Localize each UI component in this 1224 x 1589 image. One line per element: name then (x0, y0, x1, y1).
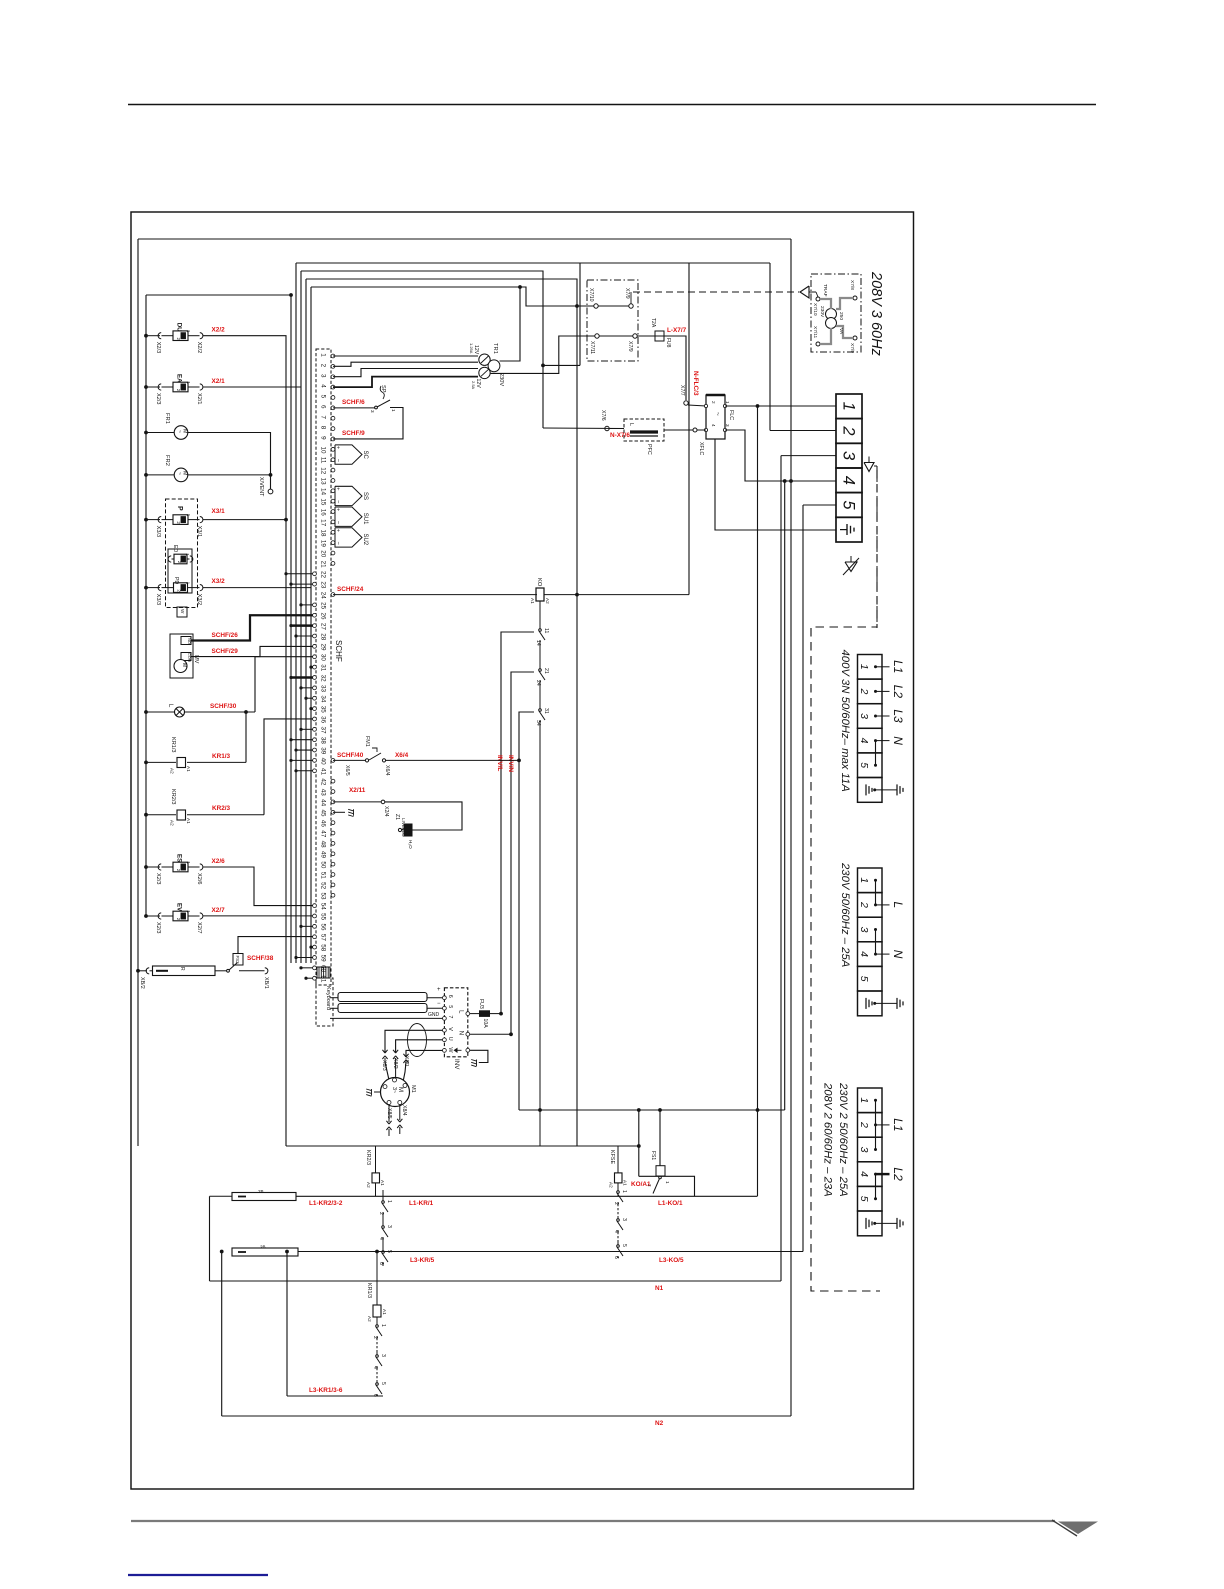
wire SCHF/56 stub (301, 925, 313, 927)
wire SCHF/40 stub (291, 759, 313, 761)
svg-text:SCHF/6: SCHF/6 (342, 399, 365, 406)
float switch FM1 on SCHF/40 (333, 759, 365, 761)
contactor KO contact 5/6 (617, 1232, 619, 1242)
terminal X7/10 (594, 304, 598, 308)
wire SCHF/32 stub (291, 676, 313, 678)
svg-text:X6/4: X6/4 (395, 752, 409, 759)
terminal 4 riser (784, 481, 786, 1110)
svg-text:A1: A1 (530, 598, 535, 604)
bus line 291 (290, 295, 292, 963)
dashed option box (811, 470, 880, 1291)
ribbon cable bar - (330, 1007, 338, 1009)
svg-text:1: 1 (621, 1190, 627, 1193)
svg-text:8: 8 (320, 426, 327, 430)
svg-text:X7/10: X7/10 (812, 303, 818, 316)
wire FR1 to X/VENT (188, 433, 271, 490)
svg-text:A1: A1 (186, 766, 191, 772)
svg-text:X2/6: X2/6 (196, 873, 202, 885)
wire SP loop to SCHF/9 (333, 408, 403, 439)
tap L2 (876, 690, 890, 692)
relay coil KR2/3 (144, 813, 148, 817)
svg-text:1: 1 (386, 1200, 392, 1203)
wire N1 riser left (209, 1196, 211, 1281)
svg-text:X6/5: X6/5 (344, 765, 350, 776)
wire SCHF/23 stub (291, 583, 313, 585)
tap L (876, 904, 890, 906)
svg-text:PFC: PFC (646, 444, 652, 455)
svg-text:58: 58 (320, 944, 327, 952)
svg-text:208V 3 60Hz: 208V 3 60Hz (868, 271, 884, 357)
wire INV N out (470, 1033, 511, 1035)
svg-text:XB/2: XB/2 (139, 977, 145, 989)
svg-text:FM1: FM1 (364, 736, 370, 747)
bus line 311 (310, 287, 312, 963)
fuse FU8 T2A on wire L-X7/7 (637, 335, 655, 337)
svg-text:X/VENT: X/VENT (258, 477, 264, 497)
svg-text:−: − (335, 542, 341, 545)
ground on SCHF/45 (333, 811, 345, 813)
wire Z1 loop (385, 802, 462, 830)
svg-text:XB/1: XB/1 (263, 977, 269, 989)
jumper (875, 1174, 877, 1199)
svg-text:1: 1 (380, 1324, 386, 1327)
svg-text:KR2/3: KR2/3 (212, 805, 231, 812)
svg-text:+: + (335, 487, 341, 490)
svg-text:X3/3: X3/3 (155, 594, 161, 606)
tap N (876, 740, 890, 742)
svg-text:ES: ES (176, 854, 183, 862)
svg-text:2B: 2B (260, 1245, 266, 1250)
svg-text:51: 51 (320, 872, 327, 880)
svg-text:1: 1 (840, 402, 858, 411)
terminal X7/11 (595, 334, 599, 338)
tap N (876, 953, 890, 955)
relay coil KR2/3 bottom (375, 1146, 377, 1173)
svg-text:21: 21 (320, 561, 327, 569)
INV pin W (443, 1049, 447, 1053)
relay coil KR1/3 (144, 761, 148, 765)
wire SCHF/26 bold (191, 615, 313, 640)
contactor KO contact 3/4 (617, 1204, 619, 1216)
svg-text:SCHF/29: SCHF/29 (212, 648, 239, 655)
svg-text:31: 31 (543, 708, 549, 714)
wire FS2 to term 57 (238, 937, 313, 954)
svg-text:2: 2 (320, 364, 327, 368)
wire to FS1 pin 1 (639, 1176, 695, 1196)
svg-text:X2/2: X2/2 (212, 327, 226, 334)
wire X7 pair links (598, 305, 629, 307)
svg-text:Z1: Z1 (394, 814, 400, 820)
svg-text:39: 39 (320, 747, 327, 755)
svg-text:KR1/3: KR1/3 (212, 753, 231, 760)
wire FLC pin4 ground to PE terminal (715, 439, 836, 530)
svg-text:10: 10 (320, 447, 327, 455)
svg-text:L3: L3 (891, 709, 905, 723)
svg-text:X2/3: X2/3 (155, 922, 161, 934)
terminal TRAF X7/11 (816, 342, 820, 346)
svg-text:23: 23 (320, 581, 327, 589)
svg-text:M: M (181, 663, 187, 667)
svg-text:SCHF/40: SCHF/40 (337, 752, 364, 759)
svg-text:48: 48 (320, 841, 327, 849)
svg-text:M1: M1 (410, 1085, 416, 1093)
bus line 301 (300, 271, 302, 963)
M1 bottom wires X8/4 X8/5 (388, 1105, 390, 1123)
gray corner logo triangle (1058, 1522, 1098, 1535)
wire KO34 riser link 1110 (519, 1109, 785, 1111)
svg-text:P: P (176, 506, 183, 511)
wire N2 riser left (221, 1252, 223, 1417)
wire X3/2 (144, 586, 148, 590)
svg-text:X3/2: X3/2 (212, 578, 226, 585)
svg-text:X6/4: X6/4 (384, 765, 390, 776)
svg-text:45: 45 (320, 809, 327, 817)
inverter INV box (444, 988, 467, 1057)
svg-text:1: 1 (858, 1097, 870, 1103)
thermal fuse FS2 SCHF/38 (215, 970, 227, 972)
svg-text:INV: INV (453, 1059, 460, 1070)
bus rect B top edge (296, 262, 770, 264)
svg-text:COM: COM (187, 653, 191, 662)
wire SCHF/27 stub (291, 624, 313, 626)
connector block X7 dashed box (587, 280, 638, 361)
svg-text:11: 11 (543, 628, 549, 633)
svg-text:FR1: FR1 (164, 413, 170, 424)
svg-text:−: − (335, 459, 341, 462)
svg-text:26: 26 (320, 612, 327, 620)
dashed PE link down (876, 466, 878, 628)
svg-text:X2/11: X2/11 (349, 787, 366, 794)
terminal strip SCHF outline (316, 349, 331, 985)
svg-text:2: 2 (858, 901, 870, 908)
wire FR2 join (188, 474, 271, 476)
svg-text:X8/5: X8/5 (386, 1108, 392, 1119)
svg-text:N2: N2 (655, 1420, 664, 1427)
svg-text:4: 4 (858, 738, 870, 744)
ribbon GND wire (330, 1017, 444, 1019)
terminal X7/9 upper (629, 304, 633, 308)
svg-text:N-X7/6: N-X7/6 (610, 432, 630, 439)
svg-text:−: − (437, 1001, 441, 1007)
svg-text:~: ~ (176, 430, 182, 433)
svg-text:L3-KR1/3-6: L3-KR1/3-6 (309, 1387, 343, 1394)
svg-text:ED: ED (172, 545, 178, 552)
breaker DU (144, 334, 148, 338)
terminal block PE cell earth symbol (840, 529, 847, 531)
wire FLC pin3 to terminal 4 (725, 430, 836, 481)
svg-text:SS: SS (362, 492, 368, 500)
wire terminal 2 feed (770, 430, 836, 432)
terminal X7/7 (684, 401, 688, 405)
svg-text:A2: A2 (609, 1182, 614, 1188)
riser KR1 loop (286, 1252, 288, 1397)
svg-text:EA: EA (176, 374, 183, 383)
svg-text:A2: A2 (170, 768, 175, 774)
svg-text:X7/11: X7/11 (589, 341, 595, 354)
svg-text:X7/10: X7/10 (588, 288, 594, 302)
svg-text:43: 43 (320, 789, 327, 797)
terminal 5 feed wire (803, 504, 836, 506)
wire SCHF/61 stub (306, 977, 313, 979)
switch SP on SCHF/6 (333, 407, 375, 409)
dashed wire X7/9 to TRAF (633, 291, 799, 293)
svg-text:52: 52 (320, 882, 327, 890)
svg-text:DU: DU (176, 323, 183, 332)
wire SCHF/30 to term 30 (185, 711, 256, 713)
svg-text:38: 38 (320, 737, 327, 745)
svg-text:54: 54 (320, 903, 327, 911)
INV pin 6 (443, 996, 447, 1000)
contactor KO contact 11/14 (539, 601, 541, 622)
svg-text:+: + (437, 987, 441, 993)
page bottom gray rule (131, 1520, 1055, 1522)
svg-text:47: 47 (320, 830, 327, 838)
terminal X7/6 (605, 426, 609, 430)
wire SCHF/35 stub (311, 708, 313, 710)
contact KR2 3/4 (382, 1216, 384, 1220)
wire SCHF/28 stub (296, 635, 313, 637)
svg-text:5: 5 (840, 500, 858, 510)
wire KO 34 riser (519, 712, 534, 1110)
svg-text:27: 27 (320, 623, 327, 631)
wire top feed 287 to X7/10 (311, 287, 596, 306)
micro switch MV assembly (170, 634, 193, 678)
svg-text:2: 2 (840, 425, 858, 435)
wire SCHF/29 (191, 646, 313, 656)
svg-text:31: 31 (320, 664, 327, 672)
motor FR1 (144, 431, 148, 435)
svg-text:25: 25 (320, 602, 327, 610)
svg-text:X3/3: X3/3 (155, 526, 161, 538)
svg-text:59: 59 (320, 955, 327, 963)
ferrite loop ellipse (408, 1024, 427, 1057)
svg-text:3: 3 (370, 410, 375, 413)
svg-text:9: 9 (320, 436, 327, 440)
wire X6/4 to riser (386, 759, 519, 761)
INV pin 7 (443, 1017, 447, 1021)
svg-text:FS1: FS1 (650, 1151, 656, 1160)
element ED (168, 556, 171, 562)
svg-text:X7/9: X7/9 (627, 341, 633, 352)
svg-text:TRAF: TRAF (822, 284, 828, 297)
svg-text:A1: A1 (380, 1180, 385, 1186)
wire L3 row (298, 1251, 803, 1253)
svg-text:X2/3: X2/3 (155, 342, 161, 354)
svg-text:7: 7 (447, 1015, 453, 1018)
svg-text:N: N (458, 1031, 464, 1035)
svg-text:17: 17 (320, 519, 327, 527)
lamp LC (144, 710, 148, 714)
svg-text:X7/9: X7/9 (624, 288, 630, 299)
svg-text:35: 35 (320, 706, 327, 714)
svg-text:L1-KR/1: L1-KR/1 (409, 1200, 434, 1207)
svg-text:3~: 3~ (391, 1087, 397, 1093)
svg-text:33: 33 (320, 685, 327, 693)
svg-text:4: 4 (378, 1237, 384, 1240)
wire SCHF/39 stub (296, 749, 313, 751)
svg-text:1: 1 (391, 409, 396, 412)
svg-text:X8/3: X8/3 (381, 1060, 387, 1071)
wire PFC to XFLC (543, 427, 624, 430)
svg-text:U: U (447, 1037, 453, 1041)
svg-text:230V: 230V (498, 373, 504, 386)
svg-text:3: 3 (858, 927, 870, 933)
contact KR1 1/2 (376, 1322, 378, 1325)
svg-text:19: 19 (320, 540, 327, 548)
svg-text:A1: A1 (382, 1309, 387, 1315)
wire top feed 279 to KO riser (306, 279, 577, 1146)
plug SS (335, 486, 362, 505)
svg-text:X2/4: X2/4 (383, 806, 389, 817)
tap L1 (876, 1124, 890, 1126)
choke PFC (624, 419, 664, 441)
svg-text:2.5A: 2.5A (471, 381, 476, 390)
terminal TRAF X7/10 (816, 297, 820, 301)
svg-text:X2/7: X2/7 (196, 922, 202, 934)
wire KO 14 to INV L riser (501, 632, 534, 1013)
wire N1 row (210, 1280, 782, 1282)
svg-text:V: V (447, 1027, 453, 1031)
bus rect A top edge (138, 238, 791, 240)
svg-text:4: 4 (320, 384, 327, 388)
external earth (896, 1218, 898, 1229)
inner box ED/PD (168, 549, 192, 593)
INV pin 5 (443, 1006, 447, 1010)
svg-text:400V 3N 50/60Hz– max 11A: 400V 3N 50/60Hz– max 11A (839, 650, 851, 792)
fuse link F1 (232, 1193, 296, 1201)
svg-text:53: 53 (320, 892, 327, 900)
svg-text:N1: N1 (655, 1285, 664, 1292)
svg-text:2: 2 (858, 687, 870, 694)
wire top feed 271 to PFC riser (301, 271, 543, 428)
svg-text:X8/1: X8/1 (403, 1056, 409, 1067)
wire N2 row (222, 1415, 791, 1417)
svg-text:L1-KR2/3-2: L1-KR2/3-2 (309, 1200, 343, 1207)
INV pin L (466, 1012, 470, 1016)
page top rule (128, 104, 1096, 106)
svg-text:15: 15 (320, 498, 327, 506)
terminal XFLC (693, 428, 697, 432)
svg-text:N: N (891, 736, 905, 745)
svg-text:13: 13 (320, 478, 327, 486)
wire left bus top link (146, 294, 291, 296)
svg-text:1: 1 (858, 664, 870, 670)
relay FLC (706, 395, 725, 439)
terminal X7/9 lower (633, 334, 637, 338)
svg-text:FU8: FU8 (665, 338, 671, 348)
tap L2 (876, 1173, 890, 1175)
svg-text:41: 41 (320, 768, 327, 776)
svg-text:3: 3 (858, 713, 870, 719)
fuse FU3 10A (470, 1013, 480, 1015)
svg-text:16: 16 (320, 509, 327, 517)
svg-text:6: 6 (613, 1256, 619, 1259)
terminal block 230V (858, 868, 883, 893)
tap L1 (876, 666, 890, 668)
relay coil KFSE (617, 1146, 619, 1173)
svg-text:1.25A: 1.25A (469, 343, 474, 354)
svg-text:SC: SC (362, 451, 368, 460)
svg-text:KFSE: KFSE (609, 1150, 615, 1164)
wire KR1 bottom row (287, 1395, 383, 1397)
svg-text:N-FLC/3: N-FLC/3 (692, 371, 699, 396)
svg-text:40: 40 (320, 758, 327, 766)
wire SCHF/22 stub (286, 573, 313, 575)
svg-text:L1: L1 (891, 660, 905, 673)
logo diagonal stroke (1052, 1520, 1077, 1536)
svg-text:L-X7/7: L-X7/7 (667, 327, 687, 334)
svg-text:6: 6 (447, 995, 453, 998)
tap L3 (876, 715, 890, 717)
wire X2/1 (203, 386, 302, 388)
svg-text:29: 29 (320, 644, 327, 652)
svg-text:PD: PD (173, 577, 179, 584)
svg-text:X7/9: X7/9 (849, 343, 855, 353)
svg-text:H₂O: H₂O (408, 840, 413, 849)
svg-text:X7/6: X7/6 (600, 410, 606, 421)
PE cell (858, 1211, 883, 1236)
svg-text:L: L (628, 423, 634, 426)
svg-text:GND: GND (428, 1012, 440, 1018)
svg-text:A1: A1 (186, 818, 191, 824)
svg-text:230V 2 50/60Hz – 25A: 230V 2 50/60Hz – 25A (837, 1082, 849, 1197)
transformer TR1 (479, 354, 490, 365)
contactor coil KO (536, 588, 544, 601)
svg-text:2: 2 (378, 1212, 384, 1215)
svg-text:INV/N: INV/N (507, 755, 514, 772)
svg-text:X2/1: X2/1 (212, 378, 226, 385)
INV pin + (466, 1048, 470, 1052)
wire X2/2 riser (203, 336, 287, 1146)
M1 ground (374, 1091, 381, 1093)
svg-text:LIVELLO: LIVELLO (401, 818, 406, 837)
svg-text:34: 34 (535, 720, 541, 726)
svg-text:SU2: SU2 (362, 533, 368, 545)
svg-text:2: 2 (647, 1184, 652, 1187)
wire FLC pin1 to terminal 1 (725, 405, 836, 407)
svg-text:A2: A2 (367, 1316, 372, 1322)
external earth (896, 998, 898, 1009)
keyboard box (316, 978, 333, 1026)
terminal block X (836, 394, 862, 419)
svg-text:KR2/3: KR2/3 (365, 1150, 371, 1165)
svg-text:2: 2 (858, 1121, 870, 1128)
wire X3/1 (203, 519, 287, 521)
svg-text:14: 14 (320, 488, 327, 496)
svg-text:VA: VA (838, 328, 844, 335)
svg-text:X3/1: X3/1 (212, 508, 226, 515)
risers to bottom section (757, 406, 759, 1196)
wire L1 row (210, 1195, 233, 1197)
svg-text:X2/6: X2/6 (212, 858, 226, 865)
svg-text:5: 5 (858, 762, 870, 768)
svg-text:KR1/3: KR1/3 (366, 1283, 372, 1298)
pressure switch P (144, 518, 148, 522)
svg-text:10A: 10A (482, 1019, 488, 1029)
wire TR1 secondary out B (491, 336, 595, 373)
wire KO 24 to INV N riser (511, 672, 534, 1034)
level sensor Z1 circuit X2/11 (333, 801, 381, 803)
svg-text:4: 4 (840, 476, 858, 485)
svg-text:L: L (891, 902, 905, 909)
svg-text:4: 4 (858, 1171, 870, 1177)
svg-text:42: 42 (320, 778, 327, 786)
contactor KO contact 31/34 (539, 686, 541, 702)
jumper (875, 880, 877, 905)
svg-text:44: 44 (320, 799, 327, 807)
bottom-left blue rule (128, 1574, 268, 1576)
svg-text:1: 1 (858, 877, 870, 883)
